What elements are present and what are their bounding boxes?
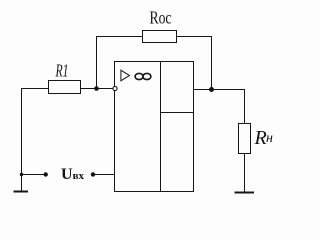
wire output node to RH bbox=[194, 90, 245, 124]
resistor RH bbox=[239, 124, 251, 154]
op-amp internal divider horizontal bbox=[161, 112, 194, 114]
wire Uvx right segment bbox=[93, 174, 115, 176]
svg-text:R1: R1 bbox=[55, 61, 69, 81]
svg-text:Roc: Roc bbox=[150, 8, 172, 28]
svg-text:R: R bbox=[254, 127, 267, 149]
output node junction dot bbox=[209, 87, 214, 92]
resistor Roc bbox=[143, 31, 177, 43]
op-amp input bubble bbox=[113, 86, 117, 90]
Uvx terminal dot right bbox=[91, 172, 95, 176]
Uvx terminal dot left bbox=[44, 172, 48, 176]
op-amp internal divider vertical bbox=[160, 62, 162, 192]
op-amp U1 body bbox=[115, 62, 194, 192]
wire ground left drop bbox=[21, 175, 23, 191]
op-amp triangle symbol bbox=[121, 70, 129, 81]
svg-text:н: н bbox=[266, 131, 273, 146]
wire Roc right to output node bbox=[177, 37, 212, 90]
ground node junction dot bbox=[20, 173, 23, 176]
wire RH to ground bbox=[244, 154, 246, 192]
ground right bbox=[235, 192, 255, 194]
wire input left vertical bbox=[21, 88, 23, 175]
wire Uvx left segment bbox=[22, 174, 46, 176]
wire R1 to node A bbox=[81, 88, 114, 90]
resistor R1 bbox=[49, 81, 81, 94]
wire feedback left vertical bbox=[97, 37, 143, 89]
node A junction dot bbox=[94, 86, 99, 91]
op-amp infinity symbol bbox=[135, 73, 151, 79]
ground left bbox=[14, 191, 29, 193]
wire input top horizontal bbox=[21, 88, 49, 90]
